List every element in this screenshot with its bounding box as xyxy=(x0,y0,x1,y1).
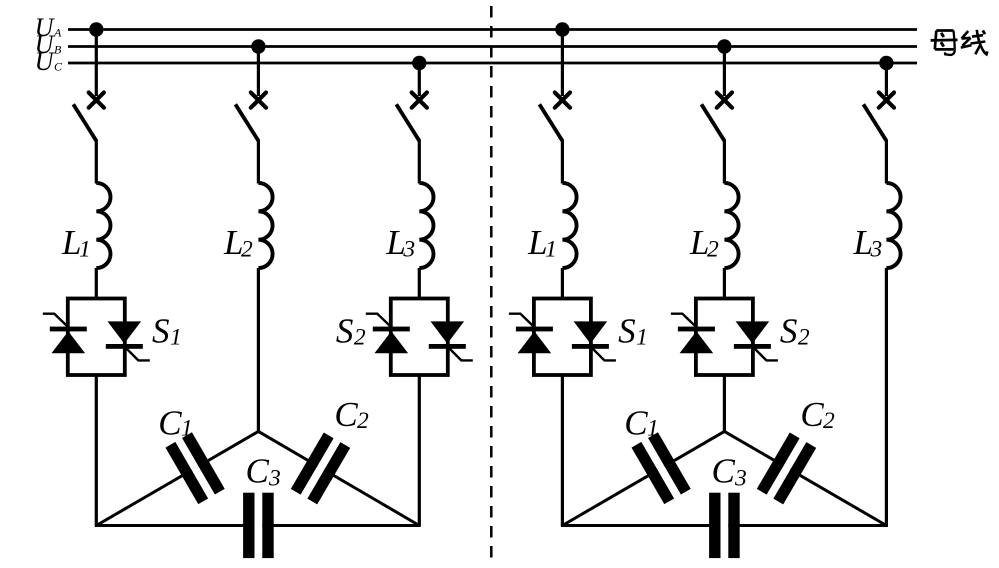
svg-text:U: U xyxy=(35,47,56,76)
capacitor C1' xyxy=(631,432,690,504)
thyristor S2-b (right, pointing down): triangle xyxy=(431,321,465,343)
capacitor C3' xyxy=(709,493,740,558)
wire: switch to inductor xyxy=(257,140,260,184)
label C3 xyxy=(246,452,281,492)
svg-text:C: C xyxy=(54,59,63,73)
label L3 xyxy=(385,223,415,263)
svg-text:2: 2 xyxy=(357,408,369,434)
thyristor S1'-a gate xyxy=(509,314,535,328)
thyristor S1'-a triangle xyxy=(518,331,552,353)
label S2' xyxy=(780,312,810,351)
inductor L3' xyxy=(886,183,900,268)
node C': junction dot xyxy=(879,56,893,70)
svg-text:C: C xyxy=(334,395,358,434)
svg-text:2: 2 xyxy=(354,325,366,351)
label C3' xyxy=(712,452,747,492)
label L1' xyxy=(527,223,557,263)
inductor L2' xyxy=(724,183,738,268)
thyristor S1-a (left, pointing up): cathode bar xyxy=(50,327,87,332)
svg-text:2: 2 xyxy=(798,325,810,351)
label L1 xyxy=(61,223,91,263)
wire: delta bottom xyxy=(561,524,888,527)
label S1' xyxy=(618,312,648,351)
thyristor S1-b anode bar xyxy=(106,344,143,349)
breaker X mark xyxy=(89,93,104,108)
inductor L3 xyxy=(419,183,433,268)
wire: inductor to thyristor box xyxy=(561,268,564,299)
thyristor S1-b gate xyxy=(124,346,150,360)
svg-text:1: 1 xyxy=(181,416,193,442)
wire: delta right slant xyxy=(258,431,419,525)
thyristor pair S2': box xyxy=(696,299,753,376)
label UB xyxy=(35,30,62,59)
label C1' xyxy=(624,404,659,443)
wire: bus to breaker xyxy=(95,30,98,97)
inductor L1' xyxy=(562,183,576,268)
node A: junction dot xyxy=(89,22,103,36)
svg-text:1: 1 xyxy=(636,325,648,351)
label L2' xyxy=(689,223,719,263)
switch blade xyxy=(73,104,96,141)
label UA xyxy=(35,13,62,42)
svg-text:S: S xyxy=(152,312,170,351)
svg-text:C: C xyxy=(624,404,648,443)
svg-text:A: A xyxy=(53,25,62,39)
thyristor S2'-a (left, pointing up): cathode bar xyxy=(678,327,715,332)
label C1 xyxy=(158,404,193,443)
wire: switch to inductor xyxy=(561,140,564,184)
node B': junction dot xyxy=(717,39,731,53)
thyristor S2-b gate xyxy=(447,346,473,360)
svg-text:C: C xyxy=(800,395,824,434)
wire: bus to breaker xyxy=(723,47,726,97)
label muxian (busbar) : character MU xyxy=(931,31,958,55)
node A': junction dot xyxy=(555,22,569,36)
wire: box to delta corner xyxy=(95,375,98,526)
thyristor S1-a triangle xyxy=(52,331,86,353)
inductor L1 xyxy=(96,183,110,268)
svg-text:1: 1 xyxy=(170,325,182,351)
thyristor S2-a (left, pointing up): cathode bar xyxy=(373,327,410,332)
thyristor S1-a gate xyxy=(43,314,69,328)
wire: delta left slant xyxy=(562,431,724,525)
wire: inductor to thyristor box xyxy=(418,268,421,299)
label L2 xyxy=(223,223,253,263)
wire: switch to inductor xyxy=(723,140,726,184)
svg-text:S: S xyxy=(618,312,636,351)
thyristor S1'-b (right, pointing down): triangle xyxy=(574,321,608,343)
breaker X mark xyxy=(879,93,894,108)
capacitor C2' xyxy=(757,432,816,504)
thyristor S1'-b anode bar xyxy=(572,344,609,349)
svg-text:3: 3 xyxy=(870,237,883,263)
switch blade xyxy=(701,104,724,141)
svg-text:3: 3 xyxy=(402,237,415,263)
svg-text:C: C xyxy=(246,452,270,491)
svg-text:2: 2 xyxy=(707,237,719,263)
thyristor S2'-b (right, pointing down): triangle xyxy=(736,321,770,343)
wire: switch to inductor xyxy=(95,140,98,184)
label L3' xyxy=(853,223,883,263)
switch blade xyxy=(539,104,562,141)
wire: inductor to delta apex xyxy=(257,268,260,431)
thyristor S2-a gate xyxy=(366,314,392,328)
wire: bus to breaker xyxy=(561,30,564,97)
svg-text:B: B xyxy=(54,42,62,56)
breaker X mark xyxy=(412,93,427,108)
thyristor S1'-a (left, pointing up): cathode bar xyxy=(516,327,553,332)
svg-text:S: S xyxy=(780,312,798,351)
thyristor S2'-a triangle xyxy=(680,331,714,353)
svg-text:3: 3 xyxy=(268,466,281,492)
thyristor S2-a triangle xyxy=(375,331,409,353)
wire: inductor to thyristor box xyxy=(723,268,726,299)
label C2' xyxy=(800,395,835,434)
svg-text:2: 2 xyxy=(823,408,835,434)
thyristor S2'-b gate xyxy=(752,346,778,360)
thyristor pair S1': box xyxy=(534,299,591,376)
inductor L2 xyxy=(258,183,272,268)
wire: delta right slant xyxy=(724,431,886,525)
wire: inductor to thyristor box xyxy=(95,268,98,299)
wire: bus to breaker xyxy=(418,63,421,96)
svg-text:1: 1 xyxy=(545,237,557,263)
node B: junction dot xyxy=(251,39,265,53)
separator dashed line xyxy=(490,6,493,558)
bus line UA xyxy=(68,28,917,31)
thyristor S2-b anode bar xyxy=(429,344,466,349)
wire: box to delta corner xyxy=(418,375,421,526)
thyristor pair S1: box xyxy=(68,299,125,376)
bus line UB xyxy=(68,45,917,48)
bus line UC xyxy=(68,62,917,65)
label C2 xyxy=(334,395,369,434)
breaker X mark xyxy=(251,93,266,108)
switch blade xyxy=(235,104,258,141)
svg-text:1: 1 xyxy=(647,416,659,442)
wire: box to delta apex xyxy=(723,375,726,431)
thyristor S1'-b gate xyxy=(590,346,616,360)
wire: switch to inductor xyxy=(885,140,888,184)
wire: switch to inductor xyxy=(418,140,421,184)
wire: box to delta corner xyxy=(561,375,564,526)
capacitor C1 xyxy=(165,432,224,504)
svg-text:C: C xyxy=(712,452,736,491)
svg-text:2: 2 xyxy=(241,237,253,263)
breaker X mark xyxy=(717,93,732,108)
label UC xyxy=(35,47,63,76)
thyristor pair S2: box xyxy=(391,299,448,376)
wire: bus to breaker xyxy=(257,47,260,97)
wire: inductor to delta corner xyxy=(885,268,888,526)
capacitor C3 xyxy=(243,493,274,558)
label S2 xyxy=(336,312,366,351)
thyristor S2'-b anode bar xyxy=(734,344,771,349)
label S1 xyxy=(152,312,182,351)
switch blade xyxy=(396,104,419,141)
svg-text:C: C xyxy=(158,404,182,443)
capacitor C2 xyxy=(291,432,350,504)
node C: junction dot xyxy=(412,56,426,70)
wire: delta left slant xyxy=(96,431,258,525)
svg-text:1: 1 xyxy=(79,237,91,263)
switch blade xyxy=(863,104,886,141)
wire: bus to breaker xyxy=(885,63,888,96)
wire: delta bottom xyxy=(95,524,421,527)
svg-text:S: S xyxy=(336,312,354,351)
label muxian (busbar) : character XIAN xyxy=(961,30,988,55)
breaker X mark xyxy=(555,93,570,108)
thyristor S1-b (right, pointing down): triangle xyxy=(108,321,142,343)
svg-text:3: 3 xyxy=(734,466,747,492)
thyristor S2'-a gate xyxy=(671,314,697,328)
